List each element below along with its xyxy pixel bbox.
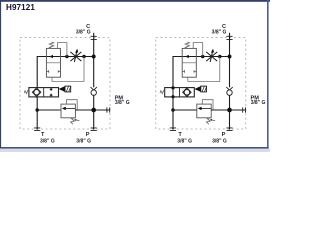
relief valve RV2 arrowhead right bbox=[198, 107, 202, 111]
svg-text:3/8” G: 3/8” G bbox=[115, 100, 130, 106]
node C junction right bbox=[228, 55, 232, 59]
svg-text:3/8” G: 3/8” G bbox=[251, 100, 266, 106]
solenoid valve EV1 blocked port top left bbox=[50, 88, 52, 90]
throttle FR1 orifice arcs left bbox=[70, 52, 81, 61]
svg-text:P: P bbox=[222, 132, 226, 138]
svg-text:H97121: H97121 bbox=[6, 3, 35, 12]
svg-text:3/8” G: 3/8” G bbox=[177, 138, 192, 144]
compensator FC1 blocked stub left-side bbox=[46, 70, 48, 73]
compensator FC2 body right bbox=[182, 48, 196, 77]
wire main supply line with elbow left bbox=[37, 57, 93, 88]
compensator FC2 spring right bbox=[185, 42, 189, 48]
throttle FR1 adjust arrow left bbox=[74, 51, 76, 62]
relief valve RV1 pilot loop left bbox=[67, 100, 78, 110]
compensator FC2 blocked stub right-side bbox=[194, 70, 196, 73]
relief valve RV1 spring left bbox=[71, 118, 76, 125]
solenoid valve EV2 open path right bbox=[172, 88, 174, 97]
solenoid valve EV1 blocked port bottom left bbox=[50, 95, 52, 97]
node C junction left bbox=[92, 55, 96, 59]
compensator FC2 pilot line upstream right bbox=[193, 43, 203, 57]
svg-text:3/8” G: 3/8” G bbox=[212, 138, 227, 144]
wire C riser left bbox=[93, 33, 95, 88]
node pilot tap 1 left bbox=[65, 55, 69, 59]
node EV2 bottom port right bbox=[171, 95, 174, 98]
solenoid valve EV1 actuator triangle left bbox=[59, 86, 65, 92]
wire relief line T-side left bbox=[37, 109, 61, 111]
dashed enclosure (valve block boundary) left bbox=[20, 38, 110, 129]
compensator FC1 spring left bbox=[49, 42, 53, 48]
frame right border bbox=[267, 0, 269, 148]
svg-text:3/8” G: 3/8” G bbox=[212, 29, 227, 35]
node pilot tap 2 right bbox=[218, 55, 222, 59]
compensator FC2 flow arrow right bbox=[185, 55, 189, 58]
solenoid valve EV2 check ball right bbox=[184, 90, 190, 96]
relief valve RV2 adjust arrow right bbox=[211, 119, 215, 122]
wire relief line T-side right bbox=[173, 109, 197, 111]
node P junction right bbox=[227, 108, 232, 113]
solenoid valve EV2 actuator triangle right bbox=[194, 86, 200, 92]
solenoid valve EV2 check diamond right bbox=[183, 88, 191, 97]
relief valve RV2 pilot loop right bbox=[202, 100, 213, 110]
relief valve RV2 body right bbox=[197, 104, 211, 118]
node T junction right bbox=[171, 108, 175, 112]
solenoid valve EV2 body right bbox=[165, 88, 195, 97]
solenoid valve EV2 return spring right bbox=[160, 91, 165, 94]
compensator FC1 flow arrow left bbox=[49, 55, 53, 58]
wire T line left bbox=[36, 97, 38, 130]
port P ticks right bbox=[226, 128, 232, 130]
wire relief line P-side left bbox=[75, 109, 110, 111]
node T junction left bbox=[35, 108, 39, 112]
solenoid valve EV1 divider left bbox=[43, 88, 45, 97]
wire C riser right bbox=[229, 33, 231, 88]
port PM ticks right bbox=[243, 107, 246, 112]
solenoid valve EV1 check diamond left bbox=[32, 88, 40, 97]
port C ticks right bbox=[226, 36, 232, 39]
relief valve RV1 flow arrow line left bbox=[65, 107, 75, 109]
compensator FC2 divider right bbox=[182, 62, 196, 64]
solenoid valve EV2 actuator box right bbox=[201, 86, 207, 92]
compensator FC1 blocked stub right-side bbox=[58, 70, 60, 73]
solenoid valve EV1 actuator box left bbox=[65, 86, 71, 92]
solenoid valve EV1 return spring left bbox=[24, 91, 29, 94]
check valve CV2 seat right bbox=[226, 87, 232, 90]
frame top border bbox=[0, 0, 270, 2]
wire P riser left bbox=[93, 95, 95, 129]
svg-text:T: T bbox=[41, 132, 45, 138]
throttle FR2 adjust arrow right bbox=[210, 51, 212, 62]
frame bottom shadow strip bbox=[0, 149, 270, 152]
check valve CV1 seat left bbox=[91, 87, 97, 90]
node P junction left bbox=[91, 108, 96, 113]
compensator FC1 pilot line upstream left bbox=[57, 43, 67, 57]
compensator FC1 pilot line downstream left bbox=[52, 57, 84, 82]
throttle FR2 arrowhead right bbox=[211, 49, 214, 53]
port T ticks right bbox=[170, 128, 176, 130]
throttle FR1 arrowhead left bbox=[75, 49, 78, 53]
svg-text:3/8” G: 3/8” G bbox=[40, 138, 55, 144]
compensator FC2 blocked stub left-side bbox=[182, 70, 184, 73]
svg-text:3/8” G: 3/8” G bbox=[76, 29, 91, 35]
wire P riser right bbox=[229, 95, 231, 129]
wire T line right bbox=[172, 97, 174, 130]
solenoid valve EV1 body left bbox=[29, 88, 59, 97]
dashed enclosure (valve block boundary) right bbox=[156, 38, 246, 129]
solenoid valve EV2 actuator hatch right bbox=[202, 86, 207, 91]
svg-text:3/8” G: 3/8” G bbox=[76, 138, 91, 144]
port T ticks left bbox=[34, 128, 40, 130]
relief valve RV1 adjust arrow left bbox=[76, 119, 80, 122]
relief valve RV1 body left bbox=[61, 104, 75, 118]
check valve CV2 ball right bbox=[227, 90, 232, 95]
port P ticks left bbox=[91, 128, 97, 130]
relief valve RV1 arrowhead left bbox=[62, 107, 66, 111]
compensator FC1 body left bbox=[46, 48, 60, 77]
frame left border bbox=[0, 0, 1, 148]
port C ticks left bbox=[91, 36, 97, 39]
compensator FC1 divider left bbox=[46, 62, 60, 64]
solenoid valve EV2 divider right bbox=[179, 88, 181, 97]
solenoid valve EV1 actuator hatch left bbox=[66, 86, 71, 91]
compensator FC2 pilot line downstream right bbox=[188, 57, 220, 82]
wire relief line P-side right bbox=[211, 109, 246, 111]
port PM ticks left bbox=[107, 107, 110, 112]
node pilot tap 2 left bbox=[82, 55, 86, 59]
svg-text:P: P bbox=[86, 132, 90, 138]
wire main supply line with elbow right bbox=[173, 57, 230, 88]
svg-text:T: T bbox=[178, 132, 182, 138]
throttle FR2 orifice arcs right bbox=[206, 52, 217, 61]
node pilot tap 1 right bbox=[201, 55, 205, 59]
check valve CV1 ball left bbox=[91, 90, 96, 95]
relief valve RV2 spring right bbox=[206, 118, 211, 125]
frame bottom border bbox=[0, 147, 269, 149]
node EV2 top port right bbox=[171, 86, 174, 89]
relief valve RV2 flow arrow line right bbox=[201, 107, 211, 109]
solenoid valve EV1 check ball left bbox=[34, 90, 40, 96]
